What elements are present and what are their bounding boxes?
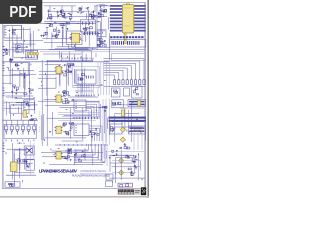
IC U3 (regulator): [55, 66, 63, 73]
wire y40 stub: [12, 42, 14, 58]
IC U101 case box: [67, 31, 83, 45]
wire mesh mid-left: [4, 63, 36, 98]
secondary rail wires: [4, 102, 24, 120]
svg-text:(7M02049KS-SEVA): (7M02049KS-SEVA): [80, 169, 106, 173]
wire mesh right-mid: [110, 102, 146, 142]
wire rail y78: [38, 77, 56, 79]
wire x47 vert: [46, 60, 48, 146]
wire y83 stub: [3, 82, 13, 84]
wire y47 rail: [75, 47, 110, 49]
wire mesh bottom-mid: [41, 147, 107, 165]
wire right column: [109, 33, 111, 60]
transformer T1 box: [81, 20, 96, 32]
label marks x38b: [39, 127, 41, 131]
schematic border frame: [2, 3, 145, 189]
wire top rail: [44, 6, 110, 22]
title text link: [80, 169, 106, 173]
wire mesh left-low: [7, 101, 38, 119]
wire mid rail: [40, 23, 96, 25]
bottom mid-right parts: [109, 150, 118, 159]
value labels row: [62, 58, 88, 59]
purple box BR: [118, 183, 133, 187]
wire mesh bottom-left: [6, 142, 35, 184]
tick row above U10: [63, 58, 93, 60]
title text sub: [72, 173, 110, 177]
inductor L1 (yellow): [138, 100, 141, 106]
small box BR: [106, 174, 114, 187]
choke row L10-L15: [5, 120, 36, 134]
svg-text:PDF: PDF: [9, 4, 36, 21]
fuse F1 (yellow): [23, 111, 26, 118]
connector J2 box: [26, 50, 38, 59]
IC U22 box: [74, 124, 89, 136]
comparator parts right2: [128, 166, 137, 175]
wire y140 marks: [6, 140, 34, 144]
IC U22 fan: [89, 126, 102, 141]
wire mesh center-left-mid: [39, 64, 62, 99]
IC U11 box: [112, 88, 121, 97]
wire rail y88: [38, 87, 56, 89]
IC U10 pins: [78, 84, 93, 87]
capacitor group mid-right: [120, 143, 130, 149]
svg-text:PLACA (ZIPPM2049KS) AKC4-S (3/: PLACA (ZIPPM2049KS) AKC4-S (3/D02): [72, 173, 110, 177]
rectifier BD101 group: [46, 22, 56, 27]
IC U5 caps: [63, 122, 74, 136]
wire D30 rail: [108, 150, 144, 180]
page right edge shading: [147, 0, 149, 198]
wire col bottom-mid: [101, 99, 109, 166]
wire mesh right-col: [98, 5, 109, 44]
resistor row fan: [114, 80, 146, 85]
inductor L2 (yellow): [121, 110, 140, 131]
wire y120 rail: [3, 119, 39, 121]
tick row below U10: [76, 95, 94, 97]
capacitor C106 group: [100, 6, 107, 13]
comparator parts right: [126, 155, 138, 163]
wire fan collect: [104, 86, 146, 88]
wire x29 vert: [29, 62, 31, 101]
wire fan bus: [104, 59, 145, 80]
bus band lower: [109, 120, 146, 122]
terminal strip box: [110, 39, 146, 47]
wire fan bottom: [74, 144, 105, 163]
capacitor C131 group: [20, 73, 25, 79]
page background: [0, 0, 149, 198]
wire mesh center-strip: [43, 51, 96, 62]
resistor network RN1: [53, 29, 60, 38]
driver parts bottom: [74, 151, 85, 162]
title block gray cell: [134, 189, 141, 194]
bottom-left small parts: [17, 159, 27, 163]
wire mesh center-low: [42, 104, 108, 144]
IC U6 caps: [63, 148, 72, 161]
title text main: [39, 168, 77, 173]
resistor bank x100: [102, 106, 107, 112]
wire col x67: [62, 62, 75, 84]
logo square: [141, 187, 146, 195]
IC U101 (PWM controller): [70, 33, 81, 43]
transformer T2 (bowtie): [24, 146, 34, 155]
bus wire stripes: [110, 5, 146, 32]
IC U5 (regulator): [55, 126, 63, 133]
regulator box: [26, 160, 35, 170]
capacitor C103 group: [68, 6, 72, 21]
wire y62 rail: [3, 61, 110, 63]
wire center bus: [98, 62, 109, 95]
resistor R105 group: [89, 6, 95, 19]
capacitor C132 group: [24, 88, 33, 94]
connector J2 pins: [27, 52, 38, 58]
title block dark row: [118, 189, 134, 192]
capacitor C120 lead: [124, 33, 126, 44]
wire mesh top band: [48, 7, 107, 23]
IC U14 box: [128, 100, 146, 107]
diode D104 group: [79, 6, 84, 13]
capacitor bank U22: [90, 128, 100, 138]
shield box: [112, 54, 146, 61]
connector CN1 box: [4, 25, 22, 38]
wire right verticals: [134, 128, 142, 150]
diode D30 (yellow): [119, 158, 124, 163]
wire y145 rail: [55, 144, 108, 146]
IC U4 caps: [63, 91, 74, 104]
diode stack D1-D3: [3, 47, 8, 56]
connector CN3 box: [5, 182, 20, 187]
wire rail y101: [38, 100, 100, 102]
snubber group: [60, 22, 69, 30]
diode D21 (yellow): [120, 127, 125, 132]
wire y75 rail: [3, 74, 31, 76]
resistor group near F1: [30, 115, 37, 121]
wire bottom-left col: [30, 140, 34, 160]
diode D120 group: [99, 40, 106, 47]
wire bus lower: [3, 50, 146, 52]
capacitor C150 (yellow): [10, 162, 17, 171]
wire loop around U10: [73, 67, 100, 88]
resistor group below J2: [9, 58, 13, 61]
IC U3 caps: [62, 63, 75, 76]
IC U16 box: [129, 126, 146, 134]
wire mesh bottom-right: [107, 151, 145, 183]
capacitor C101 group: [47, 6, 52, 20]
wire y97 stub: [6, 96, 22, 98]
IC U12 box: [132, 86, 143, 98]
capacitor C120 (large electrolytic): [122, 3, 133, 33]
wire x42 vert: [41, 60, 43, 146]
PDF badge: [0, 0, 42, 24]
IC U13 box: [112, 100, 124, 108]
bus band upper: [109, 117, 146, 119]
wire mesh top-left: [10, 26, 40, 59]
wire x3 ticks: [3, 101, 5, 111]
IC U6 (regulator): [55, 152, 63, 159]
wire left rail: [3, 25, 5, 188]
IC U20 box: [24, 100, 35, 110]
IC U21 box: [74, 100, 86, 111]
opto U2 parts: [15, 64, 19, 70]
connector CN1 pins: [5, 27, 16, 35]
IC U101 wires: [55, 43, 96, 51]
capacitor C115 group: [40, 32, 47, 37]
label marks x39: [39, 112, 41, 119]
net label bar: [110, 36, 143, 38]
capacitor row C121-C125: [84, 32, 102, 36]
capacitor C140 box: [124, 88, 130, 96]
title block light row: [118, 192, 134, 195]
diode D22 (yellow): [120, 137, 125, 142]
IC U10 pin wires: [78, 87, 93, 97]
wire vert x97: [96, 5, 98, 50]
wire mesh center-top: [42, 22, 93, 50]
svg-text:LIPWM2049KS-SEVA-140V: LIPWM2049KS-SEVA-140V: [39, 168, 77, 173]
zener stack group: [11, 85, 18, 95]
wire mesh center-mid: [67, 63, 106, 98]
diode D31 (yellow): [119, 170, 124, 175]
choke row box: [4, 124, 37, 138]
IC U15 box: [110, 124, 122, 134]
opto U2 box: [10, 63, 28, 76]
IC U4 (regulator): [55, 95, 63, 102]
capacitor C130 box: [16, 44, 22, 52]
IC U10 box: [76, 70, 96, 84]
capacitor C111 group: [97, 38, 102, 46]
transformer T1 windings: [83, 22, 93, 31]
IC U21 fan: [86, 102, 99, 117]
resistor R102 group: [60, 6, 64, 18]
wire y175 rail: [6, 155, 36, 175]
tick row y118: [58, 113, 100, 121]
page bottom edge shading: [0, 196, 149, 198]
resistor R110 group: [97, 9, 107, 37]
heatsink box: [14, 150, 26, 163]
wire CN1 out: [4, 25, 43, 40]
IC U10 inner: [78, 74, 93, 81]
